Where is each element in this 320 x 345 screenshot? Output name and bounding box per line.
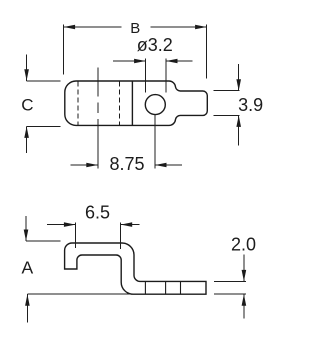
svg-text:8.75: 8.75 [109, 154, 144, 174]
dimension 6.5 lines [47, 224, 75, 226]
arrow 3.9 bottom [236, 115, 241, 127]
side view part outline [65, 243, 206, 294]
arrow 8.75 right [155, 163, 167, 168]
dimension dia 3.2 lines [113, 60, 146, 62]
arrow B right [195, 25, 207, 30]
arrow 6.5 left [64, 222, 76, 227]
visible edge line [131, 81, 133, 125]
dimension 3.9 lines [214, 90, 240, 92]
arrow dia 3.2 right [166, 59, 178, 64]
arrow 6.5 right [121, 222, 133, 227]
arrow 2.0 top [242, 270, 247, 282]
svg-text:3.9: 3.9 [238, 95, 263, 115]
arrow A top [24, 230, 29, 242]
arrow B left [64, 25, 76, 30]
serration tick 2 [165, 281, 167, 294]
hidden line left [77, 82, 79, 126]
arrow 8.75 left [86, 163, 98, 168]
dimension C lines [26, 55, 28, 81]
top view part outline [65, 81, 208, 125]
dimension 2.0 lines [214, 280, 246, 282]
dimension 8.75 lines [70, 164, 98, 166]
svg-text:6.5: 6.5 [85, 202, 110, 222]
dimension B lines [64, 26, 122, 28]
dimension A lines [25, 216, 27, 241]
hidden line right [119, 82, 121, 126]
arrow dia 3.2 left [134, 59, 146, 64]
svg-text:A: A [21, 258, 33, 278]
svg-text:2.0: 2.0 [231, 234, 256, 254]
serration tick 1 [144, 281, 146, 294]
arrow 2.0 bottom [242, 294, 247, 306]
hole diameter 3.2 [145, 95, 165, 115]
arrow C top [24, 69, 29, 81]
serration tick 3 [180, 281, 182, 294]
arrow A bottom [25, 294, 30, 306]
svg-text:C: C [21, 95, 33, 114]
arrow C bottom [24, 126, 29, 137]
svg-text:ø3.2: ø3.2 [137, 35, 173, 55]
arrow 3.9 top [236, 79, 241, 91]
